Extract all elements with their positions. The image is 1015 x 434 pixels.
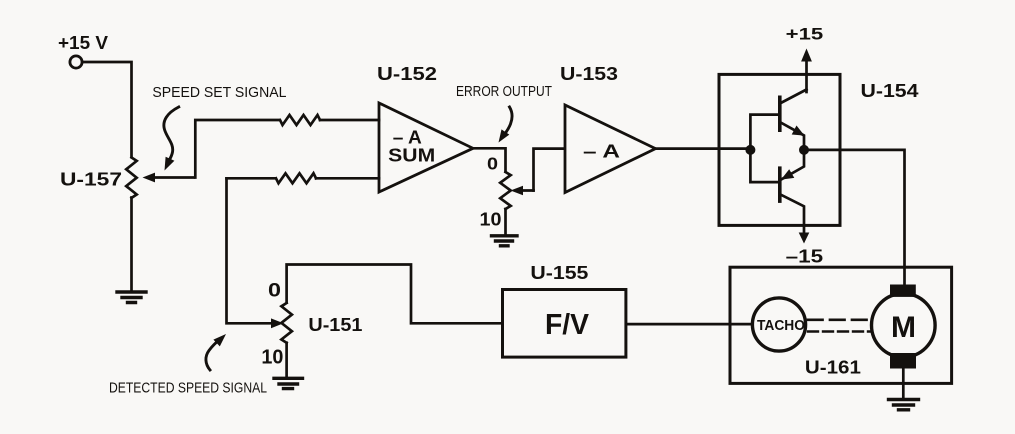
motor M circle [872, 294, 936, 358]
ground (U-157) [117, 292, 146, 303]
svg-text:– A: – A [583, 142, 620, 162]
wire tacho to F/V [626, 323, 752, 326]
resistor (speed set input) [280, 115, 320, 125]
op-amp U-153 [565, 105, 656, 193]
box U-154 [719, 74, 840, 225]
svg-text:U-155: U-155 [530, 263, 588, 283]
+15 supply arrow [805, 60, 808, 92]
potentiometer U-151 [281, 303, 292, 343]
svg-text:+15 V: +15 V [58, 33, 108, 53]
junction dot (input) [745, 145, 755, 155]
wire U-151 bottom to ground [285, 343, 288, 377]
transistor Q1 collector to +15 [780, 90, 807, 104]
svg-text:U-151: U-151 [308, 315, 362, 335]
svg-text:0: 0 [268, 280, 281, 301]
svg-text:0: 0 [487, 154, 498, 174]
svg-text:U-157: U-157 [60, 170, 122, 190]
junction dot (output) [799, 145, 809, 155]
svg-text:10: 10 [261, 347, 283, 369]
arrow annotation (speed set) [164, 107, 179, 161]
svg-text:SPEED SET SIGNAL: SPEED SET SIGNAL [152, 84, 286, 101]
wiper arrow of U-157 [151, 176, 194, 179]
svg-text:+15: +15 [786, 25, 824, 44]
arrow annotation (detected speed) [206, 339, 221, 370]
mechanical coupling dashed link (lower) [808, 330, 870, 332]
op-amp U-152 [379, 103, 473, 192]
potentiometer U-157 [126, 158, 137, 198]
transistor Q2 emitter with arrow toward base [780, 153, 804, 180]
box U-161 [730, 267, 952, 383]
tacho circle [752, 298, 805, 351]
resistor (detected speed input) [276, 173, 316, 183]
svg-text:SUM: SUM [388, 146, 435, 166]
transistor Q1 (NPN, upper) base bar [778, 97, 782, 130]
wire from U-157 bottom to ground [130, 198, 133, 291]
svg-text:– A: – A [393, 128, 422, 148]
svg-text:TACHO: TACHO [757, 318, 805, 334]
svg-text:U-154: U-154 [861, 81, 919, 101]
svg-text:U-152: U-152 [377, 64, 437, 84]
mechanical coupling dashed link (upper) [808, 318, 870, 321]
wire U-153 output to U-154 [656, 147, 751, 150]
svg-text:M: M [891, 311, 916, 344]
transistor Q2 (PNP, lower) base bar [778, 168, 782, 201]
wire motor to ground [902, 369, 905, 398]
-15 supply arrow [799, 233, 810, 244]
ground (motor) [889, 400, 919, 410]
ground (error pot) [492, 236, 518, 246]
arrow annotation (error output) [504, 107, 513, 136]
potentiometer (error output level) [500, 172, 511, 209]
wire U-154 output to motor [804, 150, 905, 285]
wire U-152 output to error pot [473, 148, 506, 171]
box U-155 F/V converter [503, 290, 626, 358]
ground (U-151) [274, 378, 303, 388]
svg-text:F/V: F/V [545, 309, 590, 341]
svg-text:–15: –15 [786, 247, 824, 267]
svg-text:U-161: U-161 [805, 358, 861, 378]
wire from +15V terminal to top of U-157 [83, 62, 132, 157]
wiper arrow of error pot [520, 189, 534, 192]
node +15V supply terminal [70, 56, 82, 68]
svg-text:DETECTED SPEED SIGNAL: DETECTED SPEED SIGNAL [109, 380, 267, 397]
wire resistor to U-152 top input [320, 119, 379, 122]
svg-text:10: 10 [480, 210, 502, 230]
wire error pot wiper to U-153 input [534, 149, 565, 191]
svg-text:ERROR OUTPUT: ERROR OUTPUT [456, 83, 552, 100]
transistor Q2 collector to -15 [780, 194, 804, 233]
wire lower input to U-152 [227, 177, 276, 180]
transistor Q1 emitter with arrow [780, 122, 804, 146]
motor brush (top) [890, 285, 916, 297]
wire from U-157 wiper up to summing resistor [195, 120, 279, 178]
wire error pot bottom to ground [504, 209, 507, 234]
wire F/V output to U-151 top [287, 265, 503, 324]
wire resistor to U-152 lower input [316, 177, 379, 180]
svg-text:U-153: U-153 [560, 64, 618, 84]
motor brush (bottom) [890, 353, 916, 369]
node (bases) wire C-shape [750, 115, 779, 183]
wiper arrow of U-151 [271, 318, 284, 328]
wire from lower input down to U-151 wiper [227, 178, 271, 323]
